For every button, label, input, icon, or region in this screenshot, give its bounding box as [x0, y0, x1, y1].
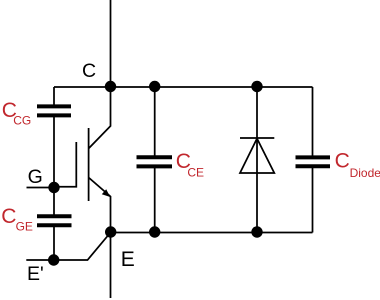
svg-text:Diode: Diode: [350, 166, 380, 180]
svg-text:CE: CE: [187, 166, 204, 180]
svg-text:E: E: [121, 248, 135, 271]
svg-text:E': E': [27, 263, 44, 285]
svg-text:G: G: [28, 166, 43, 188]
svg-text:GE: GE: [16, 220, 33, 234]
svg-text:C: C: [335, 149, 350, 172]
svg-text:C: C: [1, 205, 16, 228]
svg-text:CG: CG: [13, 113, 31, 127]
svg-text:C: C: [82, 60, 96, 82]
